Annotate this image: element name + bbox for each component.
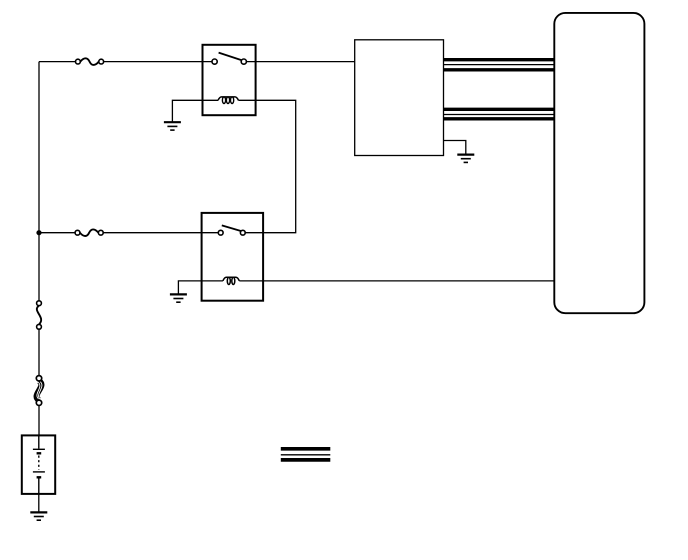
fuse F1 (relay K1 feed) xyxy=(76,58,104,65)
relay K1 switch contact (open) xyxy=(212,53,246,65)
relay K1 coil xyxy=(218,97,238,104)
wire: battery negative terminal to ground G4 xyxy=(38,494,40,512)
fusible link FL1 xyxy=(36,376,42,406)
wire: ground G3 lead up and into relay K2 coil xyxy=(178,281,223,295)
legend: harness cable sample xyxy=(281,449,331,460)
ground G2 (control module U1) xyxy=(457,155,474,163)
ground G3 (relay K2 coil return) xyxy=(170,294,187,302)
wire: fuse F1 to relay K1 switch input terminal xyxy=(104,61,212,63)
wire: trunk from junction A down to fuse F3 xyxy=(38,233,40,301)
motor assembly M1 (rounded enclosure) xyxy=(554,13,644,313)
control module U1 box xyxy=(355,40,444,156)
battery B1 xyxy=(22,435,55,494)
wire: fuse F3 to fusible link FL1 xyxy=(38,329,40,375)
wire: top feed horizontal, trunk corner to fuse F1 xyxy=(39,61,76,63)
wire: relay K1 coil to relay K2 switch output (right, down, left) xyxy=(238,100,295,232)
wire: relay K2 coil to motor assembly M1 xyxy=(239,280,554,282)
ground G4 (battery) xyxy=(30,512,47,520)
bus: upper harness (twisted pair) between U1 and M1 xyxy=(444,60,555,70)
ground G1 (relay K1 coil return) xyxy=(164,122,181,130)
fuse F2 (relay K2 feed) xyxy=(75,229,103,236)
fuse F3 (vertical, main feed) xyxy=(37,301,42,329)
wire: ground G1 lead up and into relay K1 coil xyxy=(172,100,218,122)
relay K2 coil xyxy=(223,277,239,284)
junction A (trunk / lower feed tap) xyxy=(36,230,41,235)
relay K2 box xyxy=(202,213,264,301)
wire: lower feed horizontal, junction A to fuse F2 xyxy=(39,232,75,234)
wire: fuse F2 to relay K2 switch input terminal xyxy=(103,232,218,234)
wire: left trunk vertical from top feed corner down to junction A xyxy=(38,62,40,233)
wire: control module U1 ground lead xyxy=(444,141,466,155)
relay K2 switch contact (open) xyxy=(218,225,245,235)
wire: relay K1 switch output to control module U1 xyxy=(246,61,354,63)
bus: lower harness (twisted pair) between U1 and M1 xyxy=(444,109,555,119)
relay K1 box xyxy=(203,45,256,115)
wire: fusible link FL1 to battery + terminal xyxy=(38,406,40,436)
